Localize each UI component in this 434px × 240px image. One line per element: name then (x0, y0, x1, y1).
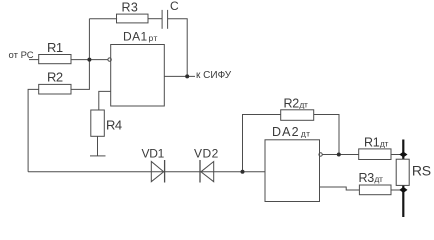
resistor R2дт (281, 110, 314, 121)
node: DA2 feedback junction dot (337, 153, 341, 157)
svg-text:R3: R3 (122, 1, 139, 15)
resistor R3 (117, 14, 149, 23)
wire: R2дт right side down to DA2 output node (314, 115, 339, 155)
op-amp U DA1 (108, 45, 164, 107)
diode VD2 (200, 160, 214, 183)
wire: DA2 output to R1дт (322, 154, 358, 156)
wire: feedback left vertical from node A up (88, 19, 90, 60)
wire: node A down to R2 output (71, 60, 89, 90)
svg-text:R2: R2 (47, 70, 63, 85)
svg-text:R3дт: R3дт (359, 171, 384, 185)
diode VD1 (151, 160, 164, 183)
wire: R3 to capacitor C (148, 18, 162, 20)
svg-text:к СИФУ: к СИФУ (196, 70, 232, 81)
ground (90, 155, 106, 157)
node A junction dot (87, 58, 91, 62)
svg-text:DA1рт: DA1рт (123, 30, 158, 44)
svg-text:R4: R4 (106, 118, 122, 133)
svg-text:DA2дт: DA2дт (272, 125, 310, 139)
wire: input lead from от РС to R1 (29, 59, 39, 61)
resistor R1дт (359, 149, 391, 160)
svg-text:R1дт: R1дт (364, 136, 389, 150)
node: shunt bottom tap dot (399, 187, 407, 193)
op-amp U DA2 (265, 140, 322, 202)
capacitor C (162, 10, 168, 29)
wire: DA1 non-inverting input to R4 (99, 91, 111, 110)
node: DA1 output junction dot (185, 74, 189, 78)
svg-text:VD1: VD1 (142, 147, 165, 161)
svg-text:C: C (170, 0, 179, 13)
wire: DA2 input node up to R2дт (243, 115, 281, 172)
resistor R1 (39, 55, 71, 64)
wire: R2 left side down to bottom bus (28, 89, 39, 171)
wire: DA2 lower output to R3дт (320, 187, 360, 190)
wire: capacitor to output node (168, 19, 188, 77)
wire: R1дт to shunt RS top tap (391, 154, 403, 156)
wire: R3дт to shunt RS bottom tap (391, 189, 403, 191)
resistor R3дт (359, 185, 391, 195)
svg-text:VD2: VD2 (194, 147, 219, 161)
resistor R4 (91, 110, 105, 136)
svg-text:R2дт: R2дт (284, 97, 309, 111)
wire: R4 to ground (97, 136, 99, 155)
wire: bottom bus to DA2 (28, 171, 265, 173)
wire: DA1 output to к СИФУ (164, 75, 195, 77)
wire: R1 output to DA1 inverting input (71, 59, 108, 61)
resistor R2 (39, 84, 71, 94)
node: shunt top tap dot (399, 152, 407, 158)
node: DA2 input junction dot (241, 170, 245, 174)
resistor RS (shunt) (396, 159, 409, 185)
svg-text:R1: R1 (47, 40, 63, 55)
shunt conductor thick line (402, 140, 404, 218)
svg-text:RS: RS (412, 163, 431, 179)
svg-text:от РС: от РС (9, 50, 34, 61)
wire: feedback top horizontal to R3 (89, 18, 117, 20)
